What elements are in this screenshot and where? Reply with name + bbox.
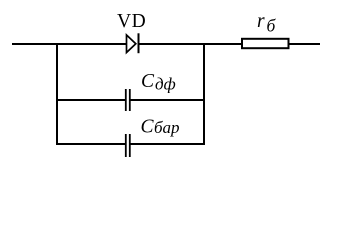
svg-text:r: r xyxy=(257,11,265,32)
svg-text:VD: VD xyxy=(117,11,146,32)
svg-text:C: C xyxy=(141,117,155,138)
svg-text:дф: дф xyxy=(155,75,176,94)
svg-text:б: б xyxy=(267,16,277,36)
svg-text:бар: бар xyxy=(154,118,180,137)
svg-text:C: C xyxy=(141,71,155,92)
